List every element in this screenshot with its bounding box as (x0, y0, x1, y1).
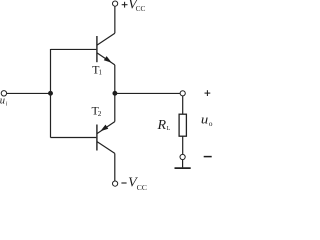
node output (112, 91, 117, 96)
svg-text:1: 1 (99, 68, 103, 76)
wire: T2 base lead (51, 137, 97, 139)
wire: input terminal to junction (7, 92, 51, 94)
resistor RL body (179, 114, 186, 136)
svg-text:o: o (209, 119, 213, 128)
ground (175, 167, 191, 169)
transistor T1 collector lead (97, 33, 115, 45)
wire: T1 emitter to output node (114, 65, 116, 94)
svg-text:R: R (157, 118, 167, 133)
transistor T2 emitter arrow (100, 125, 108, 132)
wire: T2 collector to -Vcc terminal (114, 153, 116, 181)
wire: output terminal to RL (182, 96, 184, 115)
transistor T2 base bar (96, 125, 98, 151)
wire: left vertical base bus (50, 49, 52, 138)
label output minus sign (204, 156, 212, 158)
wire: +Vcc to T1 collector (114, 6, 116, 33)
wire: output node to T2 emitter (114, 93, 116, 122)
terminal output plus (180, 91, 185, 96)
svg-text:u: u (201, 113, 208, 127)
label ui (0, 95, 8, 107)
wire: bottom terminal to ground (182, 160, 184, 168)
terminal output minus (180, 154, 185, 159)
label T1 (92, 62, 102, 76)
label uo (201, 113, 213, 128)
transistor T1 emitter arrow (104, 56, 112, 63)
transistor T2 collector lead (97, 142, 115, 154)
svg-text:2: 2 (98, 109, 102, 118)
label +Vcc plus sign (122, 2, 128, 8)
transistor T1 emitter lead (97, 53, 115, 65)
label -Vcc minus sign (121, 182, 126, 184)
label output plus sign (205, 90, 211, 96)
label RL (157, 118, 171, 133)
terminal -Vcc (113, 181, 118, 186)
terminal +Vcc (113, 1, 118, 6)
wire: RL to bottom terminal (182, 136, 184, 154)
svg-text:u: u (0, 95, 5, 106)
wire: T1 base lead (51, 48, 97, 50)
svg-text:CC: CC (137, 183, 147, 192)
label T2 (92, 104, 102, 119)
transistor T1 base bar (96, 36, 98, 62)
terminal input ui (1, 91, 6, 96)
node junction input (48, 91, 53, 96)
svg-text:i: i (6, 102, 8, 108)
wire: output node to output terminal (115, 92, 180, 94)
svg-text:L: L (167, 125, 171, 132)
svg-text:CC: CC (136, 4, 146, 13)
transistor T2 emitter lead (97, 122, 115, 134)
